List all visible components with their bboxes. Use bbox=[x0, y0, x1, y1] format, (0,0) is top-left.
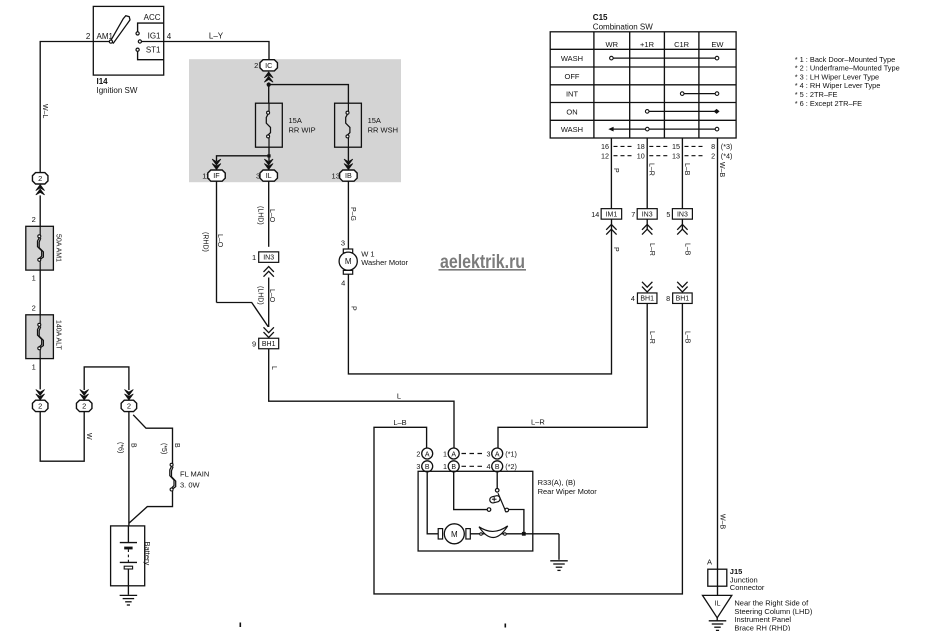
svg-text:Washer Motor: Washer Motor bbox=[361, 258, 408, 267]
svg-text:IB: IB bbox=[345, 171, 352, 180]
svg-text:2: 2 bbox=[711, 151, 715, 160]
svg-text:* 1 : Back Door–Mounted Type: * 1 : Back Door–Mounted Type bbox=[795, 55, 896, 64]
svg-text:L–R: L–R bbox=[531, 417, 545, 426]
svg-text:IG1: IG1 bbox=[148, 31, 161, 40]
svg-text:* 5 : 2TR–FE: * 5 : 2TR–FE bbox=[795, 90, 838, 99]
svg-text:W–L: W–L bbox=[41, 104, 48, 119]
svg-text:3. 0W: 3. 0W bbox=[180, 480, 201, 489]
svg-text:B: B bbox=[173, 443, 180, 448]
svg-text:(*2): (*2) bbox=[505, 462, 517, 471]
svg-text:W–B: W–B bbox=[718, 514, 725, 530]
svg-text:INT: INT bbox=[566, 90, 579, 99]
svg-text:I14: I14 bbox=[97, 77, 109, 86]
svg-text:Combination SW: Combination SW bbox=[593, 23, 653, 32]
svg-text:2: 2 bbox=[416, 449, 420, 458]
svg-text:IL: IL bbox=[266, 171, 272, 180]
svg-text:8: 8 bbox=[666, 294, 670, 303]
svg-text:11: 11 bbox=[202, 172, 210, 181]
svg-text:ON: ON bbox=[566, 107, 577, 116]
svg-text:2: 2 bbox=[254, 61, 258, 70]
svg-text:Brace RH (RHD): Brace RH (RHD) bbox=[734, 624, 790, 632]
svg-text:B: B bbox=[130, 443, 137, 448]
svg-text:IN3: IN3 bbox=[642, 211, 653, 218]
svg-text:7: 7 bbox=[631, 210, 635, 219]
svg-text:P–G: P–G bbox=[349, 207, 356, 221]
svg-text:18: 18 bbox=[637, 142, 645, 151]
svg-text:8: 8 bbox=[711, 142, 715, 151]
svg-text:Battery: Battery bbox=[143, 542, 152, 566]
svg-text:M: M bbox=[345, 257, 352, 266]
svg-text:5: 5 bbox=[666, 210, 670, 219]
svg-text:FL MAIN: FL MAIN bbox=[180, 470, 209, 479]
svg-text:(RHD): (RHD) bbox=[202, 232, 209, 252]
svg-text:P: P bbox=[349, 306, 356, 311]
svg-text:P: P bbox=[612, 247, 619, 252]
svg-text:L–O: L–O bbox=[216, 234, 223, 248]
svg-text:W–B: W–B bbox=[718, 162, 725, 178]
svg-text:Ignition SW: Ignition SW bbox=[97, 86, 138, 95]
svg-text:* 3 : LH Wiper Lever Type: * 3 : LH Wiper Lever Type bbox=[795, 72, 879, 81]
svg-text:L–O: L–O bbox=[268, 209, 275, 223]
svg-text:4: 4 bbox=[341, 278, 345, 287]
svg-text:Rear Wiper Motor: Rear Wiper Motor bbox=[538, 487, 598, 496]
svg-text:16: 16 bbox=[601, 142, 609, 151]
svg-text:OFF: OFF bbox=[565, 72, 580, 81]
svg-text:ST1: ST1 bbox=[146, 46, 161, 55]
svg-text:RR WSH: RR WSH bbox=[368, 126, 398, 135]
svg-text:L–Y: L–Y bbox=[209, 32, 224, 41]
svg-text:L–B: L–B bbox=[683, 243, 690, 256]
svg-text:(*1): (*1) bbox=[505, 449, 517, 458]
svg-text:L: L bbox=[270, 366, 277, 370]
svg-text:IN3: IN3 bbox=[677, 211, 688, 218]
svg-text:2: 2 bbox=[32, 215, 36, 224]
svg-text:15A: 15A bbox=[368, 116, 381, 125]
svg-text:A: A bbox=[425, 451, 430, 458]
svg-text:(*3): (*3) bbox=[721, 142, 733, 151]
svg-text:B: B bbox=[495, 464, 500, 471]
svg-text:15: 15 bbox=[672, 142, 680, 151]
svg-text:2: 2 bbox=[127, 402, 131, 411]
svg-text:BH1: BH1 bbox=[640, 296, 654, 303]
svg-text:B: B bbox=[451, 464, 456, 471]
svg-text:P: P bbox=[612, 168, 619, 173]
svg-text:(*6): (*6) bbox=[117, 442, 124, 453]
svg-text:1: 1 bbox=[252, 253, 256, 262]
svg-text:(LHD): (LHD) bbox=[256, 286, 263, 305]
svg-text:IF: IF bbox=[213, 171, 220, 180]
svg-text:140A ALT: 140A ALT bbox=[55, 320, 62, 351]
svg-text:A: A bbox=[707, 558, 712, 567]
svg-text:13: 13 bbox=[672, 151, 680, 160]
svg-text:BH1: BH1 bbox=[262, 341, 276, 348]
svg-text:10: 10 bbox=[637, 151, 645, 160]
svg-text:* 6 : Except 2TR–FE: * 6 : Except 2TR–FE bbox=[795, 99, 862, 108]
svg-text:50A AM1: 50A AM1 bbox=[55, 234, 62, 262]
svg-text:4: 4 bbox=[631, 294, 635, 303]
svg-text:C15: C15 bbox=[593, 13, 608, 22]
svg-text:3: 3 bbox=[416, 462, 420, 471]
svg-text:A: A bbox=[451, 451, 456, 458]
svg-text:L–B: L–B bbox=[683, 163, 690, 176]
svg-text:3: 3 bbox=[487, 449, 491, 458]
svg-text:BH1: BH1 bbox=[676, 296, 690, 303]
svg-text:14: 14 bbox=[591, 210, 599, 219]
svg-text:L–B: L–B bbox=[393, 418, 406, 427]
svg-text:EW: EW bbox=[711, 40, 724, 49]
svg-text:RR WIP: RR WIP bbox=[289, 126, 316, 135]
svg-text:M: M bbox=[451, 530, 458, 539]
svg-text:L–B: L–B bbox=[683, 331, 690, 344]
svg-text:WASH: WASH bbox=[561, 125, 583, 134]
svg-text:IM1: IM1 bbox=[606, 211, 618, 218]
svg-text:+1R: +1R bbox=[640, 40, 655, 49]
svg-text:9: 9 bbox=[252, 339, 256, 348]
svg-text:(LHD): (LHD) bbox=[256, 206, 263, 225]
svg-text:IL: IL bbox=[715, 601, 721, 608]
svg-text:WR: WR bbox=[606, 40, 619, 49]
svg-text:* 2 : Underframe–Mounted Type: * 2 : Underframe–Mounted Type bbox=[795, 64, 900, 73]
svg-text:3: 3 bbox=[256, 172, 260, 181]
svg-text:12: 12 bbox=[601, 151, 609, 160]
svg-text:2: 2 bbox=[38, 402, 42, 411]
svg-text:IC: IC bbox=[265, 61, 272, 70]
svg-text:1: 1 bbox=[32, 274, 36, 283]
svg-text:IN3: IN3 bbox=[263, 255, 274, 262]
svg-text:C1R: C1R bbox=[674, 40, 690, 49]
svg-text:1: 1 bbox=[32, 363, 36, 372]
svg-text:* 4 : RH Wiper Lever Type: * 4 : RH Wiper Lever Type bbox=[795, 81, 881, 90]
svg-text:L–O: L–O bbox=[268, 289, 275, 303]
svg-text:L: L bbox=[397, 391, 401, 400]
svg-text:W: W bbox=[85, 433, 92, 440]
svg-text:3: 3 bbox=[341, 239, 345, 248]
svg-text:L–R: L–R bbox=[648, 243, 655, 256]
svg-text:L–R: L–R bbox=[648, 163, 655, 176]
svg-text:4: 4 bbox=[167, 32, 172, 41]
svg-text:2: 2 bbox=[32, 304, 36, 313]
svg-text:2: 2 bbox=[38, 174, 42, 183]
svg-text:(*5): (*5) bbox=[160, 443, 167, 454]
svg-text:J15: J15 bbox=[730, 567, 743, 576]
svg-text:15A: 15A bbox=[289, 116, 302, 125]
svg-text:ACC: ACC bbox=[144, 13, 161, 22]
svg-text:2: 2 bbox=[82, 402, 86, 411]
svg-text:1: 1 bbox=[443, 449, 447, 458]
svg-text:(*4): (*4) bbox=[721, 151, 733, 160]
svg-text:L–R: L–R bbox=[648, 331, 655, 344]
svg-text:B: B bbox=[425, 464, 430, 471]
svg-text:R33(A), (B): R33(A), (B) bbox=[538, 478, 576, 487]
svg-text:WASH: WASH bbox=[561, 54, 583, 63]
svg-text:A: A bbox=[495, 451, 500, 458]
svg-text:1: 1 bbox=[443, 462, 447, 471]
svg-text:Connector: Connector bbox=[730, 583, 765, 592]
svg-text:2: 2 bbox=[86, 32, 91, 41]
svg-text:4: 4 bbox=[487, 462, 491, 471]
svg-text:13: 13 bbox=[332, 172, 340, 181]
